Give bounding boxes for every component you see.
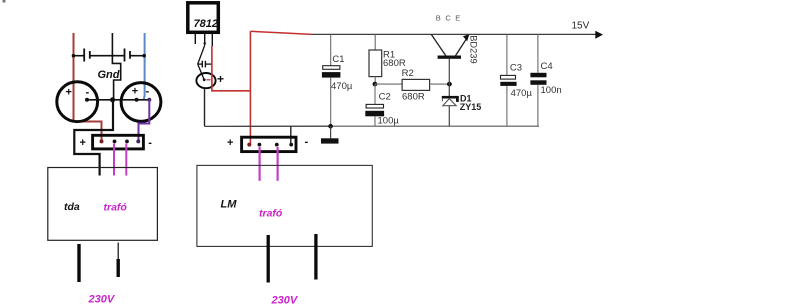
svg-text:C2: C2 [379, 92, 391, 103]
svg-text:+: + [132, 86, 138, 98]
svg-text:-: - [146, 86, 150, 98]
svg-text:+: + [227, 137, 233, 149]
svg-text:ZY15: ZY15 [460, 102, 482, 112]
svg-text:680R: 680R [402, 91, 425, 102]
svg-text:100µ: 100µ [378, 116, 400, 127]
svg-text:Gnd: Gnd [98, 69, 120, 81]
svg-text:trafó: trafó [104, 202, 128, 214]
svg-text:C4: C4 [541, 61, 553, 72]
svg-text:tda: tda [64, 201, 80, 213]
svg-text:230V: 230V [271, 295, 299, 307]
svg-text:-: - [86, 87, 90, 99]
svg-text:LM: LM [221, 199, 238, 211]
svg-text:-: - [305, 136, 309, 148]
svg-text:-: - [148, 137, 152, 149]
svg-text:trafó: trafó [259, 208, 283, 220]
svg-text:E: E [455, 14, 460, 23]
svg-text:230V: 230V [88, 294, 116, 306]
svg-text:BD239: BD239 [468, 35, 478, 63]
svg-text:C: C [445, 14, 451, 23]
svg-text:470µ: 470µ [511, 88, 533, 99]
svg-text:R2: R2 [402, 68, 414, 79]
svg-text:+: + [80, 137, 86, 149]
svg-text:+: + [217, 72, 224, 86]
svg-text:C1: C1 [332, 54, 344, 65]
svg-text:+: + [66, 87, 72, 99]
svg-text:100n: 100n [541, 85, 562, 96]
svg-text:470µ: 470µ [331, 81, 353, 92]
svg-text:B: B [436, 14, 441, 23]
svg-text:C3: C3 [510, 62, 522, 73]
svg-text:7812: 7812 [194, 18, 218, 30]
svg-text:15V: 15V [572, 20, 590, 31]
